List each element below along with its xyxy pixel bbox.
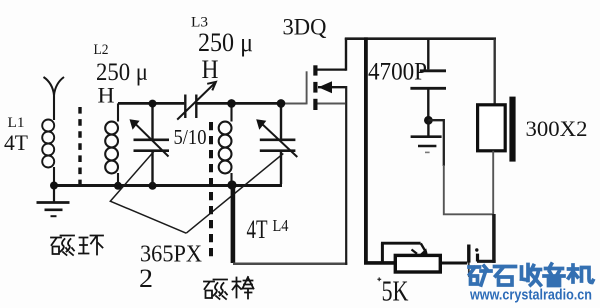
plug left prong tail [468, 263, 470, 277]
wire earphone bottom thin [492, 151, 494, 215]
svg-text:5/10: 5/10 [174, 125, 207, 149]
wire L4 bottom to source [233, 262, 347, 265]
wire top rail right [345, 37, 496, 40]
watermark kuangshi shouyinji (blue) [469, 264, 593, 286]
gang link line from C2 [186, 154, 283, 234]
transistor channel bars [313, 65, 317, 110]
inductor L1 [42, 120, 54, 168]
svg-text:2: 2 [139, 264, 153, 293]
trimmer arrow [177, 82, 215, 119]
earphone 300X2 body [478, 105, 506, 151]
svg-text:300X2: 300X2 [526, 116, 588, 141]
potentiometer wiper tick [412, 250, 418, 254]
plug dot [475, 248, 478, 251]
node dot C3 bottom [424, 116, 433, 125]
svg-text:L4: L4 [273, 216, 289, 235]
node junction L3/L4 bottom [227, 180, 236, 189]
inductor L3 [219, 103, 232, 184]
gang link line from C1 [110, 151, 186, 233]
node dot C1 top [149, 100, 157, 108]
wire pot right [440, 262, 467, 265]
ferrite ring coupling dashed line [78, 107, 81, 191]
capacitor C3 4700P [410, 40, 446, 121]
earphone diaphragm bar [509, 97, 515, 162]
wire source vertical [345, 86, 347, 265]
potentiometer 5K wiper loop [381, 243, 384, 264]
node junction L2 bottom [114, 182, 122, 190]
ground (left, under L1) [37, 185, 70, 216]
svg-text:250 μ: 250 μ [198, 28, 253, 57]
wire L1 bottom lead [53, 167, 55, 184]
inductor L4 thick bar [231, 183, 236, 263]
antenna [44, 77, 65, 95]
plug left prong [467, 245, 470, 263]
svg-text:L2: L2 [94, 42, 109, 58]
node junction C1 bottom [149, 182, 157, 190]
wire drain stub [318, 68, 347, 70]
svg-text:4700P: 4700P [368, 59, 427, 86]
node junction L1/ground [50, 182, 58, 190]
svg-text:4T: 4T [4, 130, 29, 155]
wire earphone bottom thick [492, 214, 496, 263]
node dot L3 top [227, 99, 236, 108]
wire bottom rail [53, 184, 283, 187]
svg-text:H: H [98, 83, 115, 108]
variable capacitor C1 (365PX section 1) [134, 104, 170, 186]
trimmer capacitor 5/10 plates [185, 95, 196, 119]
transistor Q1 3DQ gate electrode [306, 71, 308, 104]
ground (under C3) [411, 120, 442, 152]
wire thick vertical (drain rail to pot) [364, 37, 368, 263]
wire corner to plug [477, 260, 496, 263]
wire pot left [364, 261, 397, 265]
label plus mark [377, 277, 381, 281]
svg-text:4T: 4T [247, 215, 268, 244]
label cihuan (magnetic ring) [51, 236, 103, 256]
svg-text:5K: 5K [382, 277, 409, 308]
svg-text:L1: L1 [8, 115, 25, 131]
transistor body arrow [318, 86, 346, 88]
wire C3 node to earphone bottom [428, 120, 443, 166]
inductor L2 [105, 103, 118, 184]
arrowhead C1 [130, 119, 140, 130]
wire gate lead horizontal [284, 103, 307, 105]
svg-text:www.crystalradio.cn: www.crystalradio.cn [469, 288, 592, 304]
wire earphone top vertical [494, 39, 496, 105]
potentiometer wiper arrow [421, 243, 427, 252]
wire drain vertical [345, 38, 347, 71]
wire antenna lead [53, 94, 55, 120]
wire source stub (body) [318, 102, 346, 104]
potentiometer 5K body [395, 255, 440, 272]
magnetic rod dashed line [209, 122, 213, 261]
svg-text:H: H [202, 55, 219, 84]
svg-text:3DQ: 3DQ [283, 15, 327, 40]
plug right prong [476, 254, 479, 262]
label cibang (magnetic rod) [204, 277, 254, 299]
arrowhead C2 [256, 119, 266, 130]
wire top rail right of trimmer [197, 102, 284, 105]
wire top rail left [118, 102, 184, 105]
node dot C2 top [277, 99, 286, 108]
variable capacitor C2 (365PX section 2) [260, 103, 298, 184]
